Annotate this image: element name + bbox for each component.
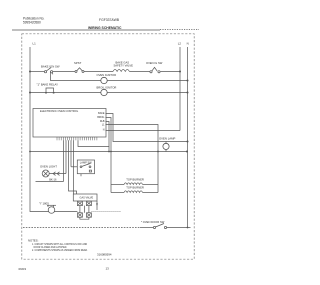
pin labels EOC: [97, 112, 105, 131]
svg-text:BAKE: BAKE: [98, 112, 105, 115]
svg-text:OVEN IG SW: OVEN IG SW: [146, 61, 163, 65]
node L1 label: [33, 42, 37, 46]
node L2 label: [178, 42, 182, 46]
ignitor broil ignitor: [97, 85, 117, 89]
switch oven ig sw: [146, 61, 163, 65]
wire harness bundle: [63, 140, 65, 181]
wire valve spark lead: [96, 201, 98, 210]
svg-text:FGF337AWB: FGF337AWB: [99, 18, 120, 22]
svg-text:2. COMPONENTS SHOWN AS VIEWED: 2. COMPONENTS SHOWN AS VIEWED FROM REAR.: [32, 249, 88, 252]
coil bake gas safety valve: [114, 61, 134, 68]
switch bake ignitor sw: [41, 64, 60, 68]
footer date: [19, 267, 27, 271]
wire lamp to bundle: [49, 173, 66, 175]
motor spark module feed: [39, 201, 49, 205]
svg-text:OVEN LIGHT: OVEN LIGHT: [40, 165, 57, 169]
header publication number: [23, 17, 45, 25]
wire L1 bus: [30, 47, 77, 212]
svg-text:SPST: SPST: [74, 61, 82, 65]
svg-text:N: N: [187, 42, 189, 46]
node junction row1-L2: [179, 71, 181, 73]
svg-text:L1: L1: [33, 42, 37, 46]
svg-text:SAFETY VALVE: SAFETY VALVE: [114, 64, 134, 68]
connector EOC comb: [57, 137, 97, 140]
svg-text:TOP BURNER: TOP BURNER: [126, 186, 144, 190]
svg-text:NOTES:: NOTES:: [28, 239, 39, 243]
notes block: [28, 239, 88, 253]
wire EOC pin4 to burner box right: [106, 125, 159, 193]
svg-text:N: N: [103, 128, 105, 131]
svg-text:LAMP SW: LAMP SW: [80, 161, 92, 165]
wire switch feed: [71, 166, 77, 168]
ignitor oven ignitor: [97, 73, 117, 77]
svg-text:13: 13: [106, 266, 110, 270]
wire row1 bake circuit: [30, 71, 45, 73]
svg-text:WIRING SCHEMATIC: WIRING SCHEMATIC: [88, 26, 122, 30]
node junction row1-L1: [29, 71, 31, 73]
gas valve coil squares: [77, 201, 82, 205]
svg-text:GAS VALVE: GAS VALVE: [80, 196, 94, 199]
node N label: [187, 42, 189, 46]
footer page number: [106, 266, 110, 270]
svg-text:"I" 1805: "I" 1805: [39, 201, 49, 205]
wire row1a ignitor branch: [51, 72, 101, 81]
svg-text:BK-16: BK-16: [49, 177, 57, 181]
svg-text:DLB: DLB: [100, 120, 105, 123]
lamp oven lamp: [159, 137, 175, 141]
header model number: [99, 18, 120, 22]
node junction row1a-N: [187, 80, 189, 82]
wire comb feed loop: [78, 140, 109, 151]
drawing number: [97, 252, 112, 256]
svg-text:OVEN LAMP: OVEN LAMP: [159, 137, 175, 141]
svg-text:5995420580: 5995420580: [23, 20, 41, 24]
wire EOC pin2 to burner box left: [106, 118, 112, 193]
svg-text:TOP BURNER: TOP BURNER: [126, 177, 144, 181]
wire EOC pin3 to neutral row: [106, 122, 110, 147]
wire motor row extension: [91, 211, 121, 213]
header rule: [12, 29, 160, 31]
node junction row2-L1: [29, 92, 31, 94]
switch oven lamp switch box: [77, 160, 94, 174]
wire EOC pin5 to L2: [106, 130, 181, 132]
svg-text:09/03: 09/03: [19, 267, 27, 271]
switch flame sw SPST: [74, 61, 82, 65]
svg-text:* OVEN DOOR SW: * OVEN DOOR SW: [141, 220, 165, 224]
lamp oven light: [40, 165, 57, 169]
wire main neutral row: [30, 151, 187, 153]
wire EOC pin1 to N: [106, 114, 188, 142]
svg-text:DOOR CLOSED AND LATCHED.: DOOR CLOSED AND LATCHED.: [34, 246, 68, 249]
svg-text:ELECTRONIC OVEN CONTROL: ELECTRONIC OVEN CONTROL: [40, 109, 79, 113]
wire door lamp circuit dashed: [23, 227, 140, 229]
svg-text:316080594: 316080594: [97, 252, 112, 256]
wire N bus: [187, 47, 189, 228]
svg-text:1. CIRCUIT SHOWN WITH ALL CONT: 1. CIRCUIT SHOWN WITH ALL CONTROLS OFF A…: [32, 243, 88, 246]
gas valve label box: [73, 194, 97, 201]
relay bake relay contact: [37, 82, 59, 86]
svg-text:L2: L2: [178, 42, 182, 46]
svg-text:BROIL: BROIL: [97, 116, 105, 119]
svg-text:BROIL IGNITOR: BROIL IGNITOR: [97, 85, 117, 89]
resistor top burner ignitor 1: [126, 177, 144, 181]
wire row2 broil circuit: [30, 92, 101, 94]
wire valve bottom: [80, 217, 89, 219]
node junction row2-N: [187, 92, 189, 94]
header title WIRING SCHEMATIC: [88, 26, 122, 30]
wire L2 bus: [179, 47, 181, 131]
svg-text:"1" BAKE RELAY: "1" BAKE RELAY: [37, 82, 59, 86]
oven control module EOC: [33, 109, 106, 138]
wire lamp neutral: [49, 177, 57, 181]
svg-text:OVEN IGNITOR: OVEN IGNITOR: [97, 73, 117, 77]
resistor top burner ignitor 2: [126, 186, 144, 190]
dashed page border: [22, 34, 194, 259]
switch oven door switch: [141, 220, 165, 224]
